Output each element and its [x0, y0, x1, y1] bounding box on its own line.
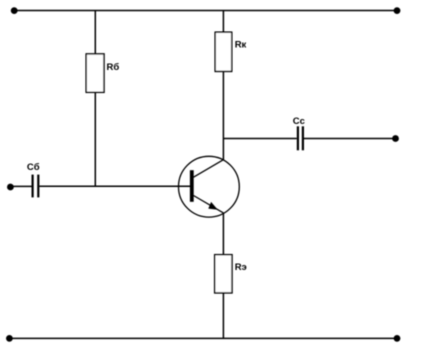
wire emitter vertical: [222, 213, 224, 256]
wire Rэ to bottom rail: [222, 293, 224, 339]
wire top supply rail: [14, 10, 397, 12]
svg-text:Cс: Cс: [293, 116, 305, 127]
wire from Rб to base node: [94, 92, 96, 186]
node bottom-left terminal: [6, 335, 13, 342]
wire input to Cб: [10, 185, 31, 187]
svg-text:Rэ: Rэ: [235, 262, 247, 273]
wire Cб to base: [39, 185, 191, 187]
resistor Rк: [215, 32, 246, 71]
wire from top rail to Rк: [222, 11, 224, 33]
wire Cc to output terminal: [304, 138, 396, 140]
resistor Rб: [86, 54, 119, 92]
capacitor Cб: [27, 162, 40, 198]
wire bottom ground rail: [9, 337, 397, 339]
resistor Rэ: [215, 255, 247, 293]
node top-right terminal: [394, 7, 401, 14]
node bottom-right terminal: [394, 335, 401, 342]
wire from top rail to Rб: [94, 11, 96, 55]
wire collector vertical: [222, 71, 224, 160]
node output terminal: [392, 135, 399, 142]
capacitor Cc: [293, 116, 305, 150]
svg-text:Rк: Rк: [235, 40, 247, 51]
node input terminal: [7, 184, 14, 191]
svg-text:Rб: Rб: [107, 62, 120, 73]
transistor VT1 (NPN): [179, 156, 240, 217]
wire collector to Cc: [223, 138, 296, 140]
node top-left terminal: [11, 7, 18, 14]
svg-text:Cб: Cб: [27, 162, 40, 173]
